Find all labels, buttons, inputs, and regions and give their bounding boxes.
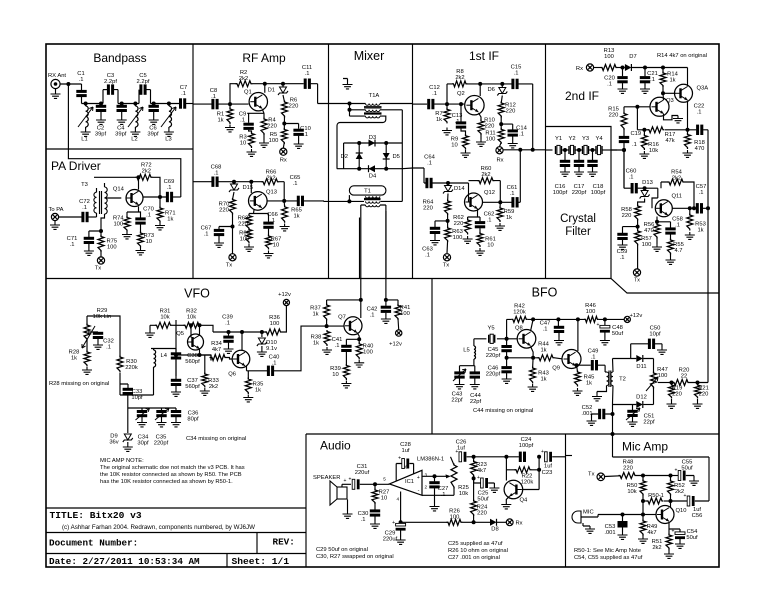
wire Q13 emitter [249,210,269,222]
svg-text:Q9: Q9 [552,366,560,372]
svg-text:.1: .1 [487,217,492,223]
ground R18 [683,150,693,157]
svg-text:.1: .1 [699,190,704,196]
svg-text:C23: C23 [542,470,553,476]
wire diode ring top [344,142,403,144]
svg-text:.1: .1 [620,255,625,261]
ground C4 [117,117,127,124]
svg-text:100pf: 100pf [553,190,568,196]
svg-text:560pf: 560pf [185,359,200,365]
svg-text:+: + [684,493,687,499]
svg-text:C56: C56 [692,513,703,519]
wire L4 to Q5 [154,320,177,376]
svg-text:50uf: 50uf [477,496,489,502]
svg-text:39pf: 39pf [115,131,127,137]
svg-text:100: 100 [604,54,614,60]
svg-text:+: + [541,449,544,455]
section divider VFO/BFO [431,279,433,435]
ground R49 [638,536,648,543]
svg-text:22pf: 22pf [470,399,482,405]
svg-text:L4: L4 [161,353,168,359]
svg-text:4: 4 [397,497,400,502]
svg-text:R14 4k7 on original: R14 4k7 on original [657,53,707,59]
wire BFO base row [474,338,518,340]
wire VFO +12v rail [213,331,267,333]
svg-text:.1: .1 [607,81,612,87]
svg-text:.1: .1 [225,320,230,326]
ground R3 [247,149,257,156]
wire mixer Tx row [329,200,403,202]
svg-text:.1: .1 [425,252,430,258]
svg-text:.1: .1 [293,181,298,187]
ground C17 [574,169,584,176]
svg-text:T3: T3 [81,182,88,188]
ground R69 [244,244,254,251]
wire R52 to Q10 collector [670,501,672,507]
wire antenna feed to PA driver [68,149,180,197]
svg-text:+: + [417,475,420,481]
wire tank node 1 [82,90,104,104]
svg-text:Tx: Tx [226,263,233,269]
svg-text:Rx: Rx [496,158,503,164]
svg-text:10k: 10k [160,314,169,320]
svg-text:To PA: To PA [49,207,64,213]
svg-text:10: 10 [273,242,279,248]
wire C11 to mixer [311,84,329,104]
ground R74 [122,232,132,239]
section divider Audio left edge [305,434,307,567]
wire diode ring left rail [343,143,345,169]
section divider Bandpass/PA Driver [46,148,193,150]
svg-text:R28 missing on original: R28 missing on original [49,381,109,387]
svg-text:SPEAKER: SPEAKER [313,475,340,481]
wire Q11 collector out [672,207,696,209]
wire Q7 base [327,325,345,327]
ground R7 [442,128,452,135]
svg-text:D11: D11 [636,364,646,370]
svg-text:Bandpass: Bandpass [93,51,146,65]
svg-text:22pf: 22pf [643,419,655,425]
svg-text:22pf: 22pf [451,397,463,403]
wire antenna to PA driver [67,84,69,149]
ground MIC [583,523,590,526]
svg-text:100: 100 [658,373,668,379]
svg-text:VFO: VFO [184,287,210,301]
ground R67 [264,251,274,258]
ground C18 [588,169,598,176]
svg-text:2.2pf: 2.2pf [137,79,150,85]
svg-text:Tx: Tx [588,472,595,478]
svg-text:Mic Amp: Mic Amp [622,440,668,454]
svg-text:220: 220 [622,213,632,219]
svg-text:220: 220 [454,221,464,227]
svg-text:220k: 220k [125,365,138,371]
svg-text:D4: D4 [369,174,377,180]
svg-text:RF Amp: RF Amp [242,51,286,65]
svg-text:.1: .1 [591,354,596,360]
svg-text:.1: .1 [650,77,655,83]
svg-text:.1: .1 [335,343,340,349]
svg-text:(c) Ashhar Farhan 2004. Redr: (c) Ashhar Farhan 2004. Redrawn, compone… [62,524,255,531]
svg-text:has the 10K resistor connected: has the 10K resistor connected as shown … [100,479,233,485]
ground R19 [667,401,677,408]
wire T2 secondary [613,359,631,453]
wire Q2 collector [479,84,481,96]
wire RF amp input [193,103,212,105]
svg-text:10: 10 [487,242,493,248]
svg-text:Q1: Q1 [244,90,252,96]
wire Q12 emitter [468,209,480,221]
svg-text:Q11: Q11 [672,194,683,200]
svg-text:.1: .1 [370,312,375,318]
wire BFO emitter row [507,357,539,359]
ground R21 [693,401,703,408]
svg-text:.1: .1 [427,160,432,166]
svg-text:+12v: +12v [630,313,643,319]
ground C55 [689,478,699,485]
svg-text:100: 100 [270,321,280,327]
connector Tx PA [97,257,104,264]
ground C6 [149,117,159,124]
svg-text:+: + [349,476,352,482]
ground R16 [639,151,649,158]
svg-text:Tx: Tx [634,278,640,284]
ground R59 [495,223,505,230]
wire VFO tank bus [120,395,176,408]
svg-text:Rx: Rx [576,66,583,72]
ground R40 [354,360,364,367]
svg-text:D8: D8 [491,527,498,533]
wire T1 to VFO left [359,218,361,279]
svg-text:100: 100 [363,349,373,355]
svg-text:C54, C55 supplied as 47uf: C54, C55 supplied as 47uf [574,555,643,561]
svg-text:D1: D1 [268,88,275,94]
svg-text:.1: .1 [629,174,634,180]
svg-text:10k: 10k [649,148,658,154]
svg-text:R50-1: See Mic Amp Note: R50-1: See Mic Amp Note [574,548,641,554]
wire Q7 emitter [346,333,359,340]
wire C71/R75 node [89,231,101,237]
svg-text:220pf: 220pf [486,353,501,359]
ground L3 [164,129,174,136]
wire ring to T1 [401,110,403,202]
wire 1st IF Tx input [413,168,426,183]
ground speaker [347,500,349,512]
connector Rx audio [506,519,513,526]
wire 1st IF input [413,103,428,105]
ground R65 [280,224,290,231]
svg-text:Q2: Q2 [457,91,465,97]
title block lines [46,508,306,567]
svg-text:R26 10 ohm on original: R26 10 ohm on original [448,548,508,554]
svg-text:10: 10 [146,239,152,245]
svg-text:.1: .1 [305,71,310,77]
svg-text:1k: 1k [540,347,546,353]
wire mixer top [329,103,413,105]
svg-text:Q4: Q4 [520,498,529,504]
wire Q1 emitter node [247,109,264,123]
svg-text:36v: 36v [109,439,118,445]
svg-text:D12: D12 [636,395,647,401]
ground R9 [461,150,471,157]
svg-text:Crystal: Crystal [560,213,596,225]
ground R4 [263,134,265,141]
svg-text:TITLE: Bitx20 v3: TITLE: Bitx20 v3 [50,510,142,521]
svg-text:10k: 10k [459,491,468,497]
svg-text:1k: 1k [540,376,546,382]
svg-text:PA Driver: PA Driver [51,159,101,173]
wire pin3 input [422,475,446,477]
ground R43 [528,384,538,391]
svg-text:+: + [344,478,347,484]
svg-text:+: + [477,475,480,481]
ground C30 [370,521,380,528]
svg-text:C29 50uf on original: C29 50uf on original [316,547,368,553]
wire R15 C19 column [624,107,650,114]
svg-text:4k7: 4k7 [647,530,656,536]
svg-text:22: 22 [681,373,687,379]
svg-text:T1: T1 [364,189,371,195]
svg-text:470: 470 [695,146,705,152]
svg-text:.1: .1 [240,117,245,123]
wire Q10 emitter [669,523,680,536]
svg-text:10k: 10k [627,489,636,495]
ground R39 [341,381,351,388]
svg-text:Y4: Y4 [595,136,603,142]
svg-text:10pf: 10pf [649,331,661,337]
svg-text:.1: .1 [432,91,437,97]
ground C71 [88,244,90,248]
section divider top/VFO-BFO [46,279,719,294]
svg-text:39pf: 39pf [95,131,107,137]
svg-text:1k: 1k [293,213,299,219]
wire IC1 pin4 [400,492,402,524]
ground C46 [502,376,512,383]
svg-text:L1: L1 [81,137,87,143]
connector +12v BFO [624,316,630,322]
ground C27 [430,504,440,511]
ground C50 [657,347,667,354]
wire T1 secondary legs [361,205,386,279]
svg-text:IC1: IC1 [405,479,414,485]
svg-text:100pf: 100pf [519,443,534,449]
wire Q14 emitter [127,207,141,218]
svg-text:220pf: 220pf [572,190,587,196]
ground Q3 emitter [664,114,679,120]
svg-text:47k: 47k [665,138,674,144]
svg-text:+: + [672,529,675,535]
svg-text:100: 100 [486,136,496,142]
svg-text:Filter: Filter [565,226,591,238]
ground T2 primary [592,394,602,401]
svg-text:220: 220 [267,123,277,129]
ground C20 [618,86,628,93]
svg-text:.1: .1 [303,132,308,138]
svg-text:10: 10 [240,140,246,146]
svg-text:560pf: 560pf [185,384,200,390]
ground R61 [475,248,485,255]
svg-text:D13: D13 [642,180,653,186]
svg-text:1st IF: 1st IF [469,49,499,63]
svg-text:+: + [392,520,395,526]
ground R73 [136,248,146,255]
svg-text:Audio: Audio [320,439,351,453]
svg-text:1k: 1k [697,227,703,233]
svg-text:The original schematic doe not: The original schematic doe not match the… [100,465,245,471]
wire RF amp Tx input [193,181,212,183]
wire Q9 collector [577,319,579,351]
svg-text:C34 missing on original: C34 missing on original [186,436,246,442]
svg-text:.001: .001 [604,530,615,536]
connector +12v mixer feed [396,330,402,336]
connector Rx RF amp [280,148,287,155]
wire antenna node [60,83,81,85]
connector Tx 2nd IF [633,269,640,276]
svg-text:10: 10 [332,372,338,378]
svg-text:.1: .1 [181,91,186,97]
svg-text:120k: 120k [513,309,526,315]
svg-text:2k2: 2k2 [652,545,661,551]
svg-text:.1: .1 [204,231,209,237]
svg-text:MIC AMP NOTE:: MIC AMP NOTE: [100,458,144,464]
svg-text:Q12: Q12 [484,190,495,196]
svg-text:5: 5 [383,477,386,482]
wire VFO collector rail [327,279,361,319]
border frame [46,44,719,567]
svg-text:+: + [455,449,458,455]
svg-text:.1: .1 [272,360,277,366]
svg-text:1k: 1k [436,117,442,123]
svg-text:Y3: Y3 [582,136,589,142]
ground R55 [670,253,672,257]
svg-text:Tx: Tx [443,263,450,269]
ground To PA [54,221,56,222]
svg-text:220: 220 [609,112,619,118]
wire T1 to VFO right [385,211,387,279]
svg-text:220: 220 [289,103,299,109]
svg-text:T2: T2 [619,377,626,383]
svg-text:2: 2 [425,485,428,490]
wire tank node 3 [151,103,180,105]
wire crystal to C60 [623,150,625,188]
ground R1 [225,125,235,132]
svg-text:-: - [418,488,420,494]
svg-text:.1: .1 [146,212,151,218]
svg-text:220: 220 [477,510,487,516]
wire crystal filter input [546,149,553,151]
ground C16 [560,169,570,176]
ground C21 [640,86,650,93]
wire Q3A emitter down [687,101,689,130]
wire Q10 base [643,514,656,516]
wire Q6 collector [241,332,243,351]
svg-text:L2: L2 [131,137,137,143]
svg-text:D2: D2 [341,154,348,160]
ground L2 [130,129,140,136]
svg-text:Document Number:: Document Number: [49,538,138,549]
section divider RF Amp/Mixer [328,44,330,279]
section divider Audio/Mic Amp [565,434,567,567]
svg-text:.1: .1 [70,242,75,248]
svg-text:D7: D7 [629,54,636,60]
ground C47 [554,338,564,345]
svg-text:100: 100 [107,244,117,250]
svg-text:BFO: BFO [532,286,558,300]
svg-text:REV:: REV: [273,537,295,548]
svg-text:1k: 1k [312,311,318,317]
section divider Bandpass/RF Amp [192,44,194,279]
ground RX Ant [55,89,57,91]
wire T3 base feed [105,197,122,199]
wire Q8 collector [531,319,534,331]
connector Rx 1st IF [496,147,503,154]
svg-text:1k: 1k [255,387,261,393]
svg-text:100: 100 [269,138,279,144]
svg-text:D14: D14 [454,186,465,192]
ground C25 [489,485,499,492]
svg-text:Date: 2/27/2011 10:53:34 AM: Date: 2/27/2011 10:53:34 AM [49,556,200,567]
svg-text:C30, R27 swapped on original: C30, R27 swapped on original [316,554,394,560]
svg-text:.1: .1 [106,344,111,350]
svg-text:10k: 10k [187,314,196,320]
svg-text:Mixer: Mixer [354,49,385,63]
svg-text:Q14: Q14 [113,187,125,193]
svg-text:1uf: 1uf [401,448,409,454]
svg-text:4k7: 4k7 [477,468,486,474]
svg-text:.1: .1 [697,109,702,115]
ground R10 [476,139,486,146]
svg-text:50uf: 50uf [686,535,698,541]
svg-text:100: 100 [586,309,596,315]
svg-text:220: 220 [219,207,229,213]
ground R28 [82,367,92,374]
svg-text:Tx: Tx [95,266,102,272]
wire T1A right leads [337,110,402,169]
svg-text:D6: D6 [488,87,495,93]
ground C10 [298,136,300,141]
svg-text:Q5: Q5 [176,331,184,337]
wire R17 row [637,107,649,130]
svg-text:30pf: 30pf [137,440,149,446]
svg-text:.1: .1 [167,185,172,191]
svg-text:10: 10 [381,495,387,501]
wire audio line into mic amp [566,455,573,457]
ground C14 [508,141,518,148]
ground C48 [600,338,610,345]
svg-text:C19: C19 [631,131,642,137]
svg-text:Q6: Q6 [228,372,236,378]
svg-text:RX Ant: RX Ant [48,73,66,79]
svg-text:.1: .1 [675,222,680,228]
wire Q8 emitter [531,346,534,358]
svg-text:9.1v: 9.1v [266,346,277,352]
svg-text:.1: .1 [361,517,366,523]
svg-text:+: + [675,468,678,474]
wire bandpass output [186,103,193,105]
svg-text:.1: .1 [510,191,515,197]
ground C63 [430,238,440,245]
svg-text:D5: D5 [393,154,400,160]
svg-text:.1: .1 [519,131,524,137]
svg-text:Q13: Q13 [266,190,277,196]
wire diode ring bottom [337,167,413,170]
svg-text:220: 220 [623,465,633,471]
svg-text:4.7: 4.7 [674,248,682,254]
svg-text:220: 220 [423,205,433,211]
svg-text:220uf: 220uf [383,536,398,542]
svg-text:1k: 1k [167,216,173,222]
svg-text:120k: 120k [521,479,534,485]
